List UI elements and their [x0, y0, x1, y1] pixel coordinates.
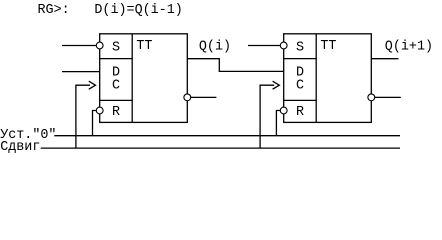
wire S input stub DD2	[248, 45, 280, 47]
inversion bubble DD1 inverted output	[184, 94, 191, 101]
inversion bubble DD1 S input	[96, 42, 103, 49]
wire R input from Уст.0 bus to DD2	[276, 111, 280, 136]
wire C input from Сдвиг bus to DD2	[260, 85, 274, 148]
svg-text:C: C	[296, 78, 304, 93]
flip-flop DD1 separator above R	[100, 99, 133, 101]
svg-text:RG>:: RG>:	[38, 3, 70, 18]
svg-text:TT: TT	[320, 39, 336, 54]
flip-flop DD1 box	[100, 34, 188, 123]
svg-text:S: S	[112, 41, 120, 56]
wire S input stub DD1	[62, 45, 96, 47]
flip-flop DD2 separator under S	[284, 58, 317, 60]
wire C input from Сдвиг bus to DD1	[76, 85, 90, 148]
svg-text:TT: TT	[136, 39, 152, 54]
bus wire Уст."0"	[54, 135, 400, 137]
wire R input from Уст.0 bus to DD1	[93, 111, 97, 136]
flip-flop DD1 separator under S	[100, 58, 133, 60]
flip-flop DD2 separator above R	[284, 99, 317, 101]
svg-text:D(i)=Q(i-1): D(i)=Q(i-1)	[94, 3, 182, 18]
svg-text:Q(i+1): Q(i+1)	[385, 39, 433, 54]
flip-flop DD2 label column divider	[315, 34, 317, 123]
wire node Q(i) from DD1 Q output to DD2 D input	[187, 59, 283, 72]
svg-text:Сдвиг: Сдвиг	[0, 140, 40, 155]
bus wire Сдвиг	[41, 147, 400, 149]
inversion bubble DD2 R input	[280, 107, 287, 114]
flip-flop DD1 label column divider	[131, 34, 133, 123]
wire D input stub DD1	[62, 71, 100, 73]
dynamic input arrow DD1 C	[89, 81, 96, 89]
svg-text:S: S	[296, 41, 304, 56]
inversion bubble DD2 S input	[280, 42, 287, 49]
wire DD2 inverted output stub	[375, 96, 401, 98]
flip-flop DD2 box	[284, 34, 372, 123]
inversion bubble DD1 R input	[96, 107, 103, 114]
svg-text:R: R	[296, 105, 304, 120]
wire DD1 inverted output stub	[191, 96, 217, 98]
svg-text:C: C	[112, 78, 120, 93]
wire node Q(i+1) output stub DD2	[371, 58, 398, 60]
dynamic input arrow DD2 C	[273, 81, 280, 89]
svg-text:R: R	[112, 105, 120, 120]
svg-text:Q(i): Q(i)	[199, 39, 231, 54]
inversion bubble DD2 inverted output	[368, 94, 375, 101]
